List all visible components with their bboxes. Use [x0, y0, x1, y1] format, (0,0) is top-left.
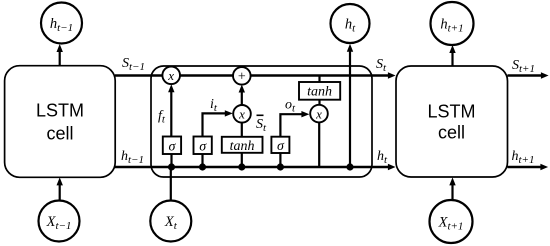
arrow S_t+1 (right LSTM out) [508, 72, 549, 78]
node circle h_t [331, 4, 370, 43]
label S_t+1 [512, 58, 535, 75]
output gate wire o_t (junction up to sigma, elbow to multiply) [280, 111, 309, 167]
node circle h_t+1 [431, 2, 474, 45]
label h_t+1 (wire) [512, 149, 535, 166]
add node + [233, 67, 251, 85]
label S_t [376, 57, 387, 74]
arrow X_t-1 circle to left LSTM [57, 177, 63, 199]
input gate wire i_t (junction up to sigma, elbow to multiply) [203, 110, 233, 167]
forget gate wire f_t (junction up to sigma, sigma to multiply) [168, 84, 174, 167]
junction dot 4 [277, 163, 284, 170]
svg-text:cell: cell [438, 123, 465, 143]
svg-text:cell: cell [46, 124, 73, 144]
label o_t [285, 98, 296, 115]
multiply node x2 (input) [233, 105, 251, 123]
svg-text:LSTM: LSTM [427, 102, 475, 122]
arrow h_t+1 (right LSTM out) [508, 164, 549, 170]
svg-text:LSTM: LSTM [36, 101, 84, 121]
tanh box (top, on S branch) [299, 82, 340, 100]
candidate wire S~ (junction to tanh, tanh to multiply, multiply to add) [239, 85, 245, 168]
svg-text:σ: σ [277, 139, 285, 154]
wire S_t-1 (left LSTM to multiply node) [115, 74, 372, 77]
svg-text:+: + [238, 70, 246, 85]
tanh box (candidate) [222, 137, 263, 154]
right LSTM cell box [396, 66, 508, 177]
junction dot 5 (h_t branch) [346, 163, 353, 170]
sigma box 1 (forget gate) [163, 137, 181, 155]
wire h_t up to circle [347, 44, 353, 167]
sigma box 3 (output gate) [271, 137, 289, 155]
multiply node x3 (output) [310, 105, 328, 123]
junction dot 1 [168, 163, 175, 170]
wire X_t input vertical [170, 167, 172, 201]
wire h_t-1 (left LSTM into cell bottom line) [115, 166, 372, 169]
left LSTM cell box [5, 66, 116, 178]
node circle X_t [150, 201, 191, 242]
node circle X_t-1 [39, 201, 80, 242]
label f_t [158, 109, 166, 126]
svg-text:x: x [167, 68, 174, 83]
multiply node x1 (forget) [162, 67, 180, 85]
tanh branch wire (S line down to tanh box, tanh to multiply, multiply down to h line) [318, 76, 320, 168]
arrow h_t (middle cell to right LSTM) [372, 164, 396, 170]
label i_t [210, 97, 218, 114]
node circle h_t-1 [41, 3, 82, 44]
junction dot 3 [238, 163, 245, 170]
svg-text:σ: σ [169, 140, 177, 155]
svg-text:x: x [315, 106, 322, 121]
arrow X_t+1 circle to right LSTM [449, 177, 455, 199]
svg-text:x: x [238, 107, 245, 122]
sigma box 2 (input gate) [194, 137, 212, 155]
arrow left LSTM to h_t-1 circle [57, 44, 63, 66]
arrow right LSTM to h_t+1 circle [449, 45, 455, 66]
node circle X_t+1 [430, 200, 473, 243]
label S_t-1 [122, 56, 145, 73]
junction dot 2 [199, 163, 206, 170]
svg-text:tanh: tanh [307, 85, 332, 100]
middle cell rounded border [151, 66, 372, 177]
arrow S_t (middle cell to right LSTM) [372, 72, 396, 78]
label S~_t (S bar) [256, 115, 267, 134]
label h_t-1 (wire) [121, 149, 144, 166]
svg-text:tanh: tanh [230, 139, 255, 154]
label h_t (wire) [377, 149, 388, 166]
svg-text:σ: σ [199, 140, 207, 155]
